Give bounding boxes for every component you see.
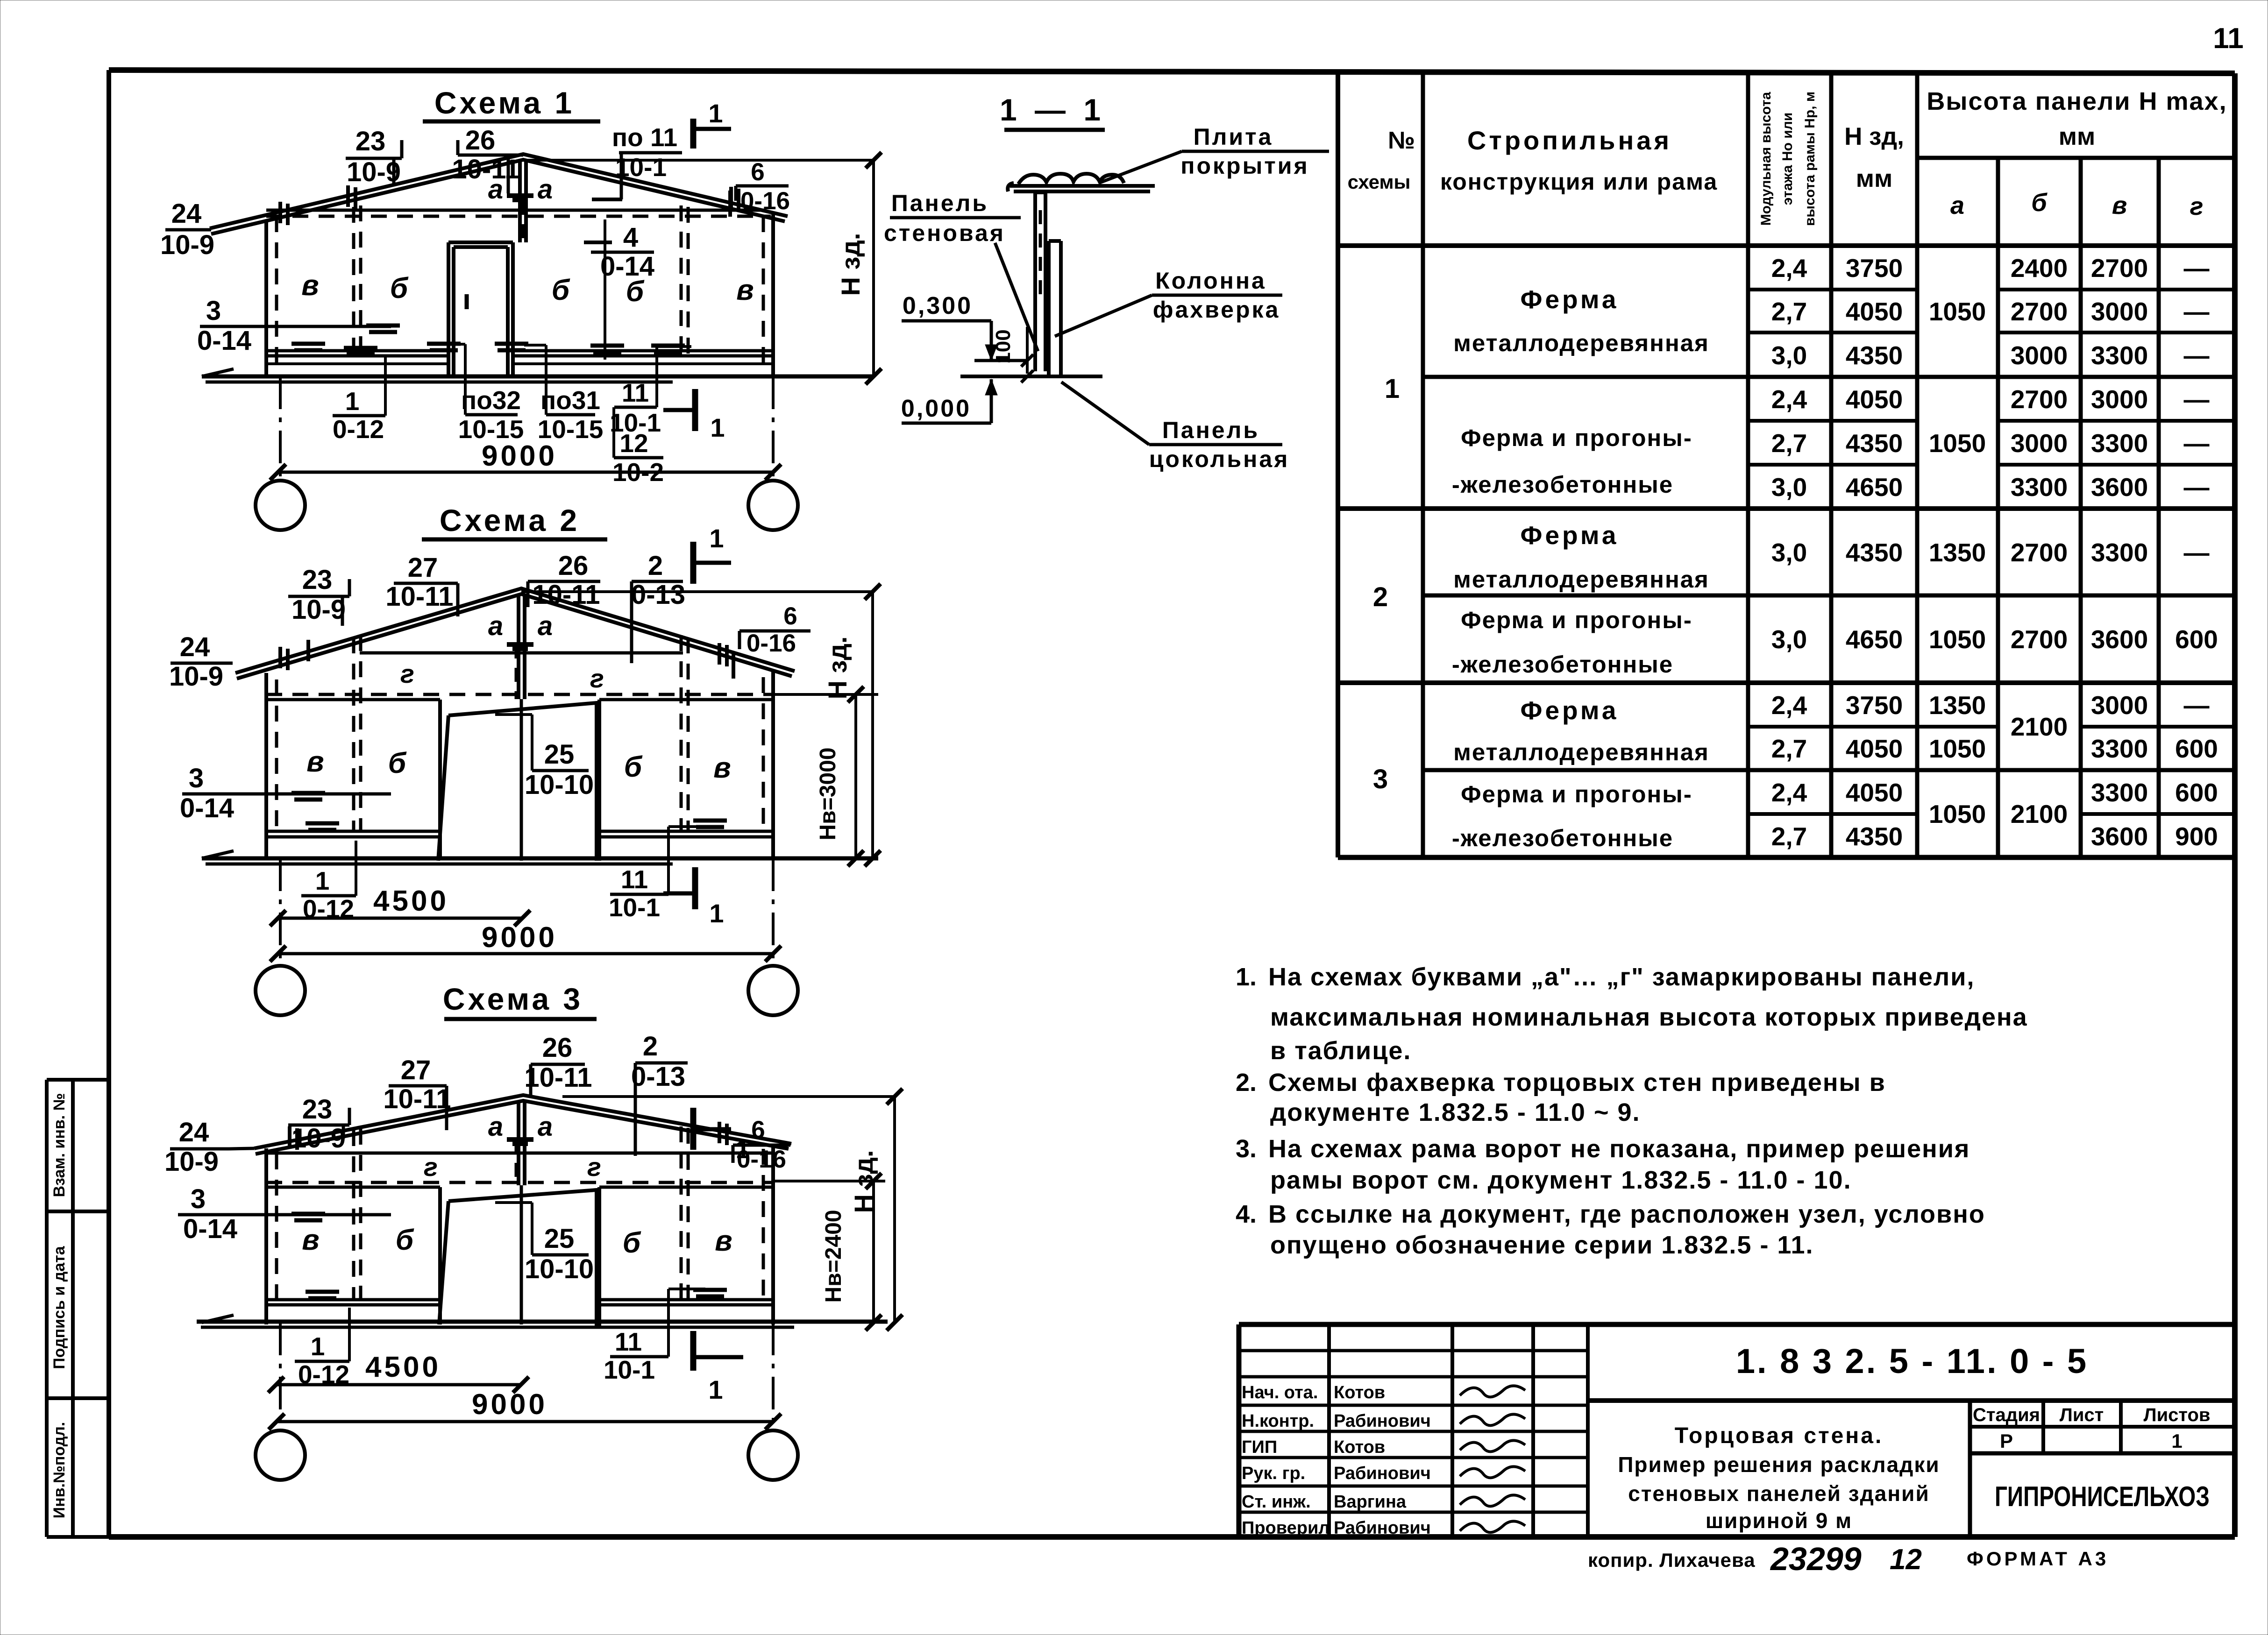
svg-text:Листов: Листов xyxy=(2144,1405,2211,1425)
svg-text:10-1: 10-1 xyxy=(609,893,660,922)
svg-text:-железобетонные: -железобетонные xyxy=(1452,825,1673,851)
svg-text:Нв=3000: Нв=3000 xyxy=(816,748,840,841)
svg-text:металлодеревянная: металлодеревянная xyxy=(1453,739,1709,765)
svg-text:24: 24 xyxy=(179,1117,209,1147)
svg-text:2,7: 2,7 xyxy=(1771,429,1807,458)
svg-text:3300: 3300 xyxy=(2091,734,2148,763)
svg-text:мм: мм xyxy=(2059,123,2095,150)
svg-text:конструкция или рама: конструкция или рама xyxy=(1440,169,1718,195)
svg-text:3300: 3300 xyxy=(2091,341,2148,370)
svg-text:26: 26 xyxy=(558,551,589,581)
svg-text:ГИПРОНИСЕЛЬХОЗ: ГИПРОНИСЕЛЬХОЗ xyxy=(1995,1481,2210,1512)
svg-text:23: 23 xyxy=(355,126,386,156)
svg-text:по32: по32 xyxy=(461,386,521,415)
svg-text:б: б xyxy=(390,272,409,304)
svg-text:2: 2 xyxy=(648,551,663,581)
svg-text:На схемах буквами „а"… „г" з: На схемах буквами „а"… „г" замаркированы… xyxy=(1268,963,1975,991)
svg-text:9000: 9000 xyxy=(482,921,557,954)
svg-text:3000: 3000 xyxy=(2091,691,2148,720)
svg-text:Варгина: Варгина xyxy=(1334,1492,1407,1512)
svg-text:а: а xyxy=(1950,191,1964,219)
svg-text:9000: 9000 xyxy=(482,440,557,472)
svg-text:1: 1 xyxy=(709,524,724,553)
svg-text:4350: 4350 xyxy=(1846,822,1903,851)
svg-text:Схема 2: Схема 2 xyxy=(440,503,580,538)
svg-text:3600: 3600 xyxy=(2091,473,2148,502)
svg-text:600: 600 xyxy=(2175,625,2218,654)
svg-text:металлодеревянная: металлодеревянная xyxy=(1453,566,1709,593)
svg-text:4050: 4050 xyxy=(1846,734,1903,763)
svg-text:10-11: 10-11 xyxy=(385,581,453,612)
svg-text:Рабинович: Рабинович xyxy=(1334,1464,1431,1483)
svg-text:а: а xyxy=(538,174,553,205)
svg-text:Схемы фахверка торцовых сте: Схемы фахверка торцовых стен приведены в xyxy=(1268,1069,1886,1097)
svg-text:1.: 1. xyxy=(1236,963,1257,991)
svg-text:Р: Р xyxy=(2000,1430,2013,1452)
svg-text:стеновая: стеновая xyxy=(884,220,1005,246)
svg-text:1050: 1050 xyxy=(1929,800,1986,828)
svg-text:2700: 2700 xyxy=(2091,254,2148,283)
svg-text:3300: 3300 xyxy=(2011,473,2068,502)
svg-text:Высота панели Н mах,: Высота панели Н mах, xyxy=(1927,87,2227,115)
svg-text:Н зд.: Н зд. xyxy=(836,233,865,296)
svg-text:Н.контр.: Н.контр. xyxy=(1242,1411,1314,1431)
svg-text:4.: 4. xyxy=(1236,1200,1257,1228)
svg-text:-железобетонные: -железобетонные xyxy=(1452,471,1673,498)
svg-text:г: г xyxy=(590,664,604,693)
svg-text:10-11: 10-11 xyxy=(524,1062,592,1093)
svg-text:б: б xyxy=(624,751,643,783)
svg-text:2,7: 2,7 xyxy=(1771,734,1807,763)
svg-text:4500: 4500 xyxy=(365,1351,441,1383)
svg-text:а: а xyxy=(488,611,503,641)
svg-text:3000: 3000 xyxy=(2011,429,2068,458)
svg-text:Модульная высота: Модульная высота xyxy=(1758,92,1774,226)
svg-text:10-15: 10-15 xyxy=(538,415,604,444)
svg-text:0-16: 0-16 xyxy=(747,630,796,657)
svg-text:ГИП: ГИП xyxy=(1242,1437,1277,1457)
svg-text:—: — xyxy=(2184,341,2210,370)
svg-text:11: 11 xyxy=(2213,22,2244,55)
svg-text:1: 1 xyxy=(710,413,725,442)
svg-text:24: 24 xyxy=(180,632,210,662)
svg-text:копир. Лихачева: копир. Лихачева xyxy=(1588,1549,1756,1571)
svg-text:4: 4 xyxy=(623,222,638,253)
svg-text:1: 1 xyxy=(708,99,723,128)
svg-text:опущено обозначение серии: опущено обозначение серии 1.832.5 - 11. xyxy=(1270,1231,1814,1259)
svg-text:в: в xyxy=(2112,191,2127,219)
svg-text:в: в xyxy=(715,1225,732,1257)
svg-text:600: 600 xyxy=(2175,778,2218,807)
svg-text:б: б xyxy=(623,1227,641,1259)
svg-text:0-13: 0-13 xyxy=(631,1062,685,1092)
svg-text:10-15: 10-15 xyxy=(458,415,524,444)
svg-text:2,4: 2,4 xyxy=(1771,691,1807,720)
svg-text:25: 25 xyxy=(544,1224,575,1254)
svg-text:4500: 4500 xyxy=(373,885,449,917)
svg-text:3,0: 3,0 xyxy=(1771,538,1807,567)
svg-text:0-13: 0-13 xyxy=(631,580,685,610)
svg-text:стеновых панелей зданий: стеновых панелей зданий xyxy=(1628,1481,1929,1506)
svg-text:в таблице.: в таблице. xyxy=(1270,1037,1411,1065)
svg-text:0,300: 0,300 xyxy=(903,292,973,319)
svg-text:Стропильная: Стропильная xyxy=(1467,126,1672,155)
svg-text:23299: 23299 xyxy=(1770,1541,1862,1577)
svg-text:2400: 2400 xyxy=(2011,254,2068,283)
svg-text:Схема 1: Схема 1 xyxy=(434,85,575,120)
svg-text:10-9: 10-9 xyxy=(169,661,223,692)
svg-text:—: — xyxy=(2184,297,2210,326)
svg-text:г: г xyxy=(424,1152,438,1182)
svg-text:3000: 3000 xyxy=(2091,297,2148,326)
svg-text:г: г xyxy=(587,1152,601,1182)
svg-text:4650: 4650 xyxy=(1846,473,1903,502)
svg-text:2100: 2100 xyxy=(2011,712,2068,741)
svg-text:цокольная: цокольная xyxy=(1149,446,1290,472)
svg-text:0-14: 0-14 xyxy=(197,326,251,356)
svg-text:по 11: по 11 xyxy=(612,123,677,152)
svg-text:ФОРМАТ А3: ФОРМАТ А3 xyxy=(1967,1548,2109,1570)
svg-text:6: 6 xyxy=(783,602,797,630)
svg-text:11: 11 xyxy=(621,865,648,894)
svg-text:6: 6 xyxy=(751,158,764,186)
svg-text:—: — xyxy=(2184,385,2210,414)
svg-text:10-9: 10-9 xyxy=(291,1123,346,1154)
svg-text:а: а xyxy=(538,1111,553,1142)
svg-text:а: а xyxy=(538,611,553,641)
svg-text:4350: 4350 xyxy=(1846,429,1903,458)
svg-text:Нач. ота.: Нач. ота. xyxy=(1242,1383,1318,1402)
svg-text:Рабинович: Рабинович xyxy=(1334,1411,1431,1431)
svg-text:900: 900 xyxy=(2175,822,2218,851)
svg-text:Ферма: Ферма xyxy=(1521,696,1619,725)
svg-text:1050: 1050 xyxy=(1929,734,1986,763)
svg-text:мм: мм xyxy=(1856,165,1892,192)
svg-text:металлодеревянная: металлодеревянная xyxy=(1453,330,1709,356)
svg-text:0-16: 0-16 xyxy=(740,187,790,215)
svg-text:схемы: схемы xyxy=(1348,171,1411,193)
svg-text:Торцовая стена.: Торцовая стена. xyxy=(1675,1423,1884,1448)
svg-text:Нв=2400: Нв=2400 xyxy=(821,1210,846,1303)
svg-text:3600: 3600 xyxy=(2091,822,2148,851)
svg-text:—: — xyxy=(2184,473,2210,502)
svg-text:-железобетонные: -железобетонные xyxy=(1452,651,1673,678)
svg-text:по31: по31 xyxy=(540,386,600,415)
svg-text:Подпись и дата: Подпись и дата xyxy=(50,1246,68,1369)
svg-text:600: 600 xyxy=(2175,734,2218,763)
svg-text:24: 24 xyxy=(171,198,202,229)
svg-text:4050: 4050 xyxy=(1846,297,1903,326)
svg-text:в: в xyxy=(736,274,754,306)
svg-text:4050: 4050 xyxy=(1846,778,1903,807)
svg-text:б: б xyxy=(2031,189,2048,217)
svg-text:документе 1.832.5 - 11.0 ~ 9: документе 1.832.5 - 11.0 ~ 9. xyxy=(1270,1098,1641,1126)
svg-text:этажа Но или: этажа Но или xyxy=(1780,113,1795,205)
svg-text:—: — xyxy=(2184,429,2210,458)
svg-text:27: 27 xyxy=(408,552,438,583)
svg-text:6: 6 xyxy=(751,1116,765,1144)
svg-text:Взам. инв. №: Взам. инв. № xyxy=(50,1093,68,1197)
svg-text:г: г xyxy=(2190,192,2204,220)
svg-text:1: 1 xyxy=(2171,1430,2182,1452)
svg-text:1350: 1350 xyxy=(1929,691,1986,720)
svg-text:Ферма: Ферма xyxy=(1521,285,1619,314)
svg-text:1: 1 xyxy=(345,387,360,416)
svg-text:—: — xyxy=(2184,254,2210,283)
svg-text:1. 8 3 2. 5 - 11. 0 - 5: 1. 8 3 2. 5 - 11. 0 - 5 xyxy=(1736,1342,2088,1380)
svg-text:рамы ворот см. документ 1.: рамы ворот см. документ 1.832.5 - 11.0 -… xyxy=(1270,1166,1852,1194)
svg-text:27: 27 xyxy=(401,1055,431,1085)
svg-text:3.: 3. xyxy=(1236,1135,1257,1163)
svg-text:2: 2 xyxy=(643,1031,658,1062)
svg-text:На схемах рама ворот не пок: На схемах рама ворот не показана, пример… xyxy=(1268,1135,1970,1163)
svg-text:3750: 3750 xyxy=(1846,691,1903,720)
svg-text:Ферма и прогоны-: Ферма и прогоны- xyxy=(1461,425,1692,451)
svg-text:2.: 2. xyxy=(1236,1069,1257,1097)
svg-text:4350: 4350 xyxy=(1846,538,1903,567)
svg-text:Котов: Котов xyxy=(1334,1437,1385,1457)
svg-text:в: в xyxy=(301,269,319,302)
svg-text:3: 3 xyxy=(1373,764,1388,794)
svg-text:10-10: 10-10 xyxy=(525,770,594,800)
svg-text:Лист: Лист xyxy=(2060,1405,2104,1425)
svg-text:0-14: 0-14 xyxy=(183,1214,237,1244)
svg-text:25: 25 xyxy=(544,739,575,770)
svg-text:2,7: 2,7 xyxy=(1771,297,1807,326)
svg-text:№: № xyxy=(1388,127,1415,154)
svg-text:3000: 3000 xyxy=(2091,385,2148,414)
svg-text:В ссылке на документ, где: В ссылке на документ, где расположен узе… xyxy=(1268,1200,1985,1228)
svg-text:3,0: 3,0 xyxy=(1771,625,1807,654)
svg-text:Плита: Плита xyxy=(1194,124,1273,150)
svg-text:3300: 3300 xyxy=(2091,429,2148,458)
svg-text:10-11: 10-11 xyxy=(532,580,600,610)
svg-text:Ст. инж.: Ст. инж. xyxy=(1242,1492,1311,1512)
svg-text:покрытия: покрытия xyxy=(1180,153,1309,179)
svg-text:3300: 3300 xyxy=(2091,778,2148,807)
svg-text:1: 1 xyxy=(311,1332,325,1361)
svg-text:Рабинович: Рабинович xyxy=(1334,1518,1431,1538)
svg-text:б: б xyxy=(552,274,570,306)
svg-text:Проверил: Проверил xyxy=(1242,1518,1330,1538)
svg-text:1 — 1: 1 — 1 xyxy=(1000,92,1105,127)
svg-text:2,4: 2,4 xyxy=(1771,778,1807,807)
svg-text:Панель: Панель xyxy=(1162,417,1259,443)
svg-text:высота рамы Нр, м: высота рамы Нр, м xyxy=(1802,92,1818,226)
svg-text:2,4: 2,4 xyxy=(1771,254,1807,283)
svg-text:2,7: 2,7 xyxy=(1771,822,1807,851)
svg-text:г: г xyxy=(400,659,414,688)
svg-text:Стадия: Стадия xyxy=(1973,1405,2040,1425)
svg-text:0-12: 0-12 xyxy=(333,415,384,444)
svg-text:2: 2 xyxy=(1373,582,1388,612)
svg-text:11: 11 xyxy=(622,378,649,407)
svg-text:10-10: 10-10 xyxy=(525,1254,594,1284)
svg-text:3: 3 xyxy=(189,763,204,793)
svg-text:4050: 4050 xyxy=(1846,385,1903,414)
svg-text:в: в xyxy=(302,1224,319,1256)
svg-text:26: 26 xyxy=(542,1033,573,1063)
svg-text:2,4: 2,4 xyxy=(1771,385,1807,414)
svg-text:1: 1 xyxy=(315,866,330,895)
svg-text:3,0: 3,0 xyxy=(1771,473,1807,502)
svg-text:Ферма и прогоны-: Ферма и прогоны- xyxy=(1461,607,1692,633)
svg-text:23: 23 xyxy=(302,1094,333,1125)
svg-text:шириной 9 м: шириной 9 м xyxy=(1706,1508,1852,1533)
svg-text:б: б xyxy=(396,1224,414,1256)
svg-text:1: 1 xyxy=(735,1134,750,1164)
svg-text:3: 3 xyxy=(191,1184,206,1214)
svg-text:2700: 2700 xyxy=(2011,538,2068,567)
svg-text:Н зд,: Н зд, xyxy=(1844,123,1904,150)
svg-text:2700: 2700 xyxy=(2011,385,2068,414)
svg-text:1050: 1050 xyxy=(1929,297,1986,326)
svg-text:Ферма: Ферма xyxy=(1521,521,1619,550)
svg-text:10-9: 10-9 xyxy=(164,1147,219,1177)
svg-text:Инв.№подл.: Инв.№подл. xyxy=(50,1422,68,1519)
svg-text:12: 12 xyxy=(619,429,648,458)
svg-text:0-14: 0-14 xyxy=(180,793,234,823)
svg-text:а: а xyxy=(488,1111,503,1142)
svg-text:3: 3 xyxy=(206,296,221,326)
svg-text:в: в xyxy=(306,746,324,778)
svg-text:—: — xyxy=(2184,691,2210,720)
svg-text:2100: 2100 xyxy=(2011,800,2068,828)
svg-text:Н зд.: Н зд. xyxy=(823,637,852,700)
svg-text:Пример решения раскладки: Пример решения раскладки xyxy=(1618,1452,1940,1477)
svg-text:2700: 2700 xyxy=(2011,297,2068,326)
svg-text:10-9: 10-9 xyxy=(160,230,214,260)
svg-text:максимальная номинальная выс: максимальная номинальная высота которых … xyxy=(1270,1003,2028,1031)
svg-text:1: 1 xyxy=(1385,374,1400,404)
svg-text:100: 100 xyxy=(992,329,1015,363)
svg-text:3300: 3300 xyxy=(2091,538,2148,567)
svg-text:фахверка: фахверка xyxy=(1153,297,1280,323)
svg-text:1050: 1050 xyxy=(1929,625,1986,654)
svg-text:9000: 9000 xyxy=(472,1388,547,1421)
svg-text:12: 12 xyxy=(1890,1543,1922,1576)
svg-text:Котов: Котов xyxy=(1334,1383,1385,1402)
svg-text:10-9: 10-9 xyxy=(291,595,346,625)
svg-text:—: — xyxy=(2184,538,2210,567)
svg-text:в: в xyxy=(713,752,731,784)
svg-text:0-14: 0-14 xyxy=(600,251,654,282)
svg-text:1350: 1350 xyxy=(1929,538,1986,567)
svg-text:1050: 1050 xyxy=(1929,429,1986,458)
svg-text:4650: 4650 xyxy=(1846,625,1903,654)
svg-text:Колонна: Колонна xyxy=(1155,268,1266,294)
svg-text:0,000: 0,000 xyxy=(901,395,971,422)
svg-text:Панель: Панель xyxy=(891,190,988,216)
svg-text:10-1: 10-1 xyxy=(604,1355,655,1384)
svg-text:10-11: 10-11 xyxy=(383,1084,451,1114)
svg-text:Ферма и прогоны-: Ферма и прогоны- xyxy=(1461,781,1692,807)
svg-text:3600: 3600 xyxy=(2091,625,2148,654)
svg-text:3,0: 3,0 xyxy=(1771,341,1807,370)
svg-text:2700: 2700 xyxy=(2011,625,2068,654)
svg-text:б: б xyxy=(388,747,407,779)
svg-text:3000: 3000 xyxy=(2011,341,2068,370)
svg-text:4350: 4350 xyxy=(1846,341,1903,370)
svg-text:3750: 3750 xyxy=(1846,254,1903,283)
svg-text:26: 26 xyxy=(465,125,496,156)
svg-text:11: 11 xyxy=(615,1327,642,1356)
svg-text:Схема 3: Схема 3 xyxy=(443,982,583,1016)
svg-text:1: 1 xyxy=(709,899,724,928)
svg-text:Рук. гр.: Рук. гр. xyxy=(1242,1464,1305,1483)
svg-text:1: 1 xyxy=(708,1375,723,1404)
svg-text:23: 23 xyxy=(302,565,333,595)
